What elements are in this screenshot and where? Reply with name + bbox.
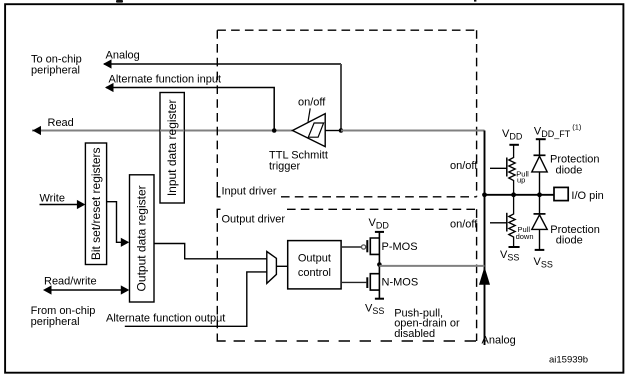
P-MOS gate bubble [362, 245, 366, 249]
svg-text:Input driver: Input driver [222, 185, 277, 197]
dashed box: Input driver [217, 30, 476, 197]
I/O rail [485, 194, 555, 196]
mux: output selector [267, 252, 277, 284]
svg-text:Analog: Analog [482, 334, 516, 346]
svg-text:P-MOS: P-MOS [382, 241, 418, 253]
arrowhead: write (right, into bit set/reset) [77, 200, 86, 209]
wire: analog tap vertical [340, 64, 342, 131]
svg-text:To on-chip: To on-chip [31, 54, 82, 66]
svg-text:Alternate function output: Alternate function output [106, 313, 225, 325]
svg-text:on/off: on/off [450, 219, 478, 231]
wire: schmitt on/off control [308, 108, 310, 121]
register: Input data register [160, 93, 184, 204]
wire: output control to N-MOS gate [342, 281, 366, 283]
svg-text:From on-chip: From on-chip [31, 305, 96, 317]
resistor: pull-down [509, 195, 515, 247]
wire: alternate function output [125, 272, 267, 326]
clipped figure title descender (g) [116, 0, 123, 3]
arrowhead: Read (left) [33, 126, 42, 135]
svg-text:diode: diode [556, 234, 583, 246]
wire: schmitt input from I/O rail (gray) [341, 130, 485, 132]
svg-text:peripheral: peripheral [31, 316, 80, 328]
svg-text:up: up [517, 176, 525, 185]
svg-text:Output: Output [298, 253, 331, 265]
wire: Alternate function input [106, 88, 274, 131]
arrowhead: read/write right [121, 285, 130, 294]
I/O pin pad [554, 187, 568, 200]
svg-text:Alternate function input: Alternate function input [109, 74, 222, 86]
svg-text:diode: diode [556, 165, 583, 177]
resistor: pull-up [509, 145, 515, 195]
power: VDD (P-MOS) [375, 231, 384, 233]
svg-text:peripheral: peripheral [31, 65, 80, 77]
block: Output control [288, 241, 341, 289]
wire: write [40, 204, 80, 206]
wire: read/write (double arrow) [48, 289, 124, 291]
svg-text:Read/write: Read/write [44, 275, 97, 287]
svg-text:on/off: on/off [450, 160, 478, 172]
wire: Analog input path [104, 63, 341, 65]
wire: output control to P-MOS gate [342, 246, 362, 248]
svg-text:down: down [516, 232, 534, 241]
hysteresis symbol [308, 123, 323, 137]
op-amp: TTL Schmitt trigger [293, 114, 326, 147]
clipped figure title descender (p) [474, 0, 476, 2]
arrowhead: Alternate function input (left) [105, 83, 114, 92]
svg-text:Write: Write [40, 192, 65, 204]
arrowhead: Analog (left) [103, 59, 112, 68]
node: push-pull output junction [377, 262, 382, 267]
register: Bit set/reset registers [85, 143, 106, 265]
label: From on-chip peripheral [31, 305, 96, 328]
svg-text:on/off: on/off [298, 96, 326, 108]
svg-text:control: control [298, 267, 331, 279]
node: rail-left junction [482, 192, 487, 197]
svg-text:Output driver: Output driver [222, 213, 286, 225]
label: To on-chip peripheral [31, 54, 82, 77]
node: analog tap junction [339, 128, 344, 133]
wire: right vertical to rail and analog [484, 131, 486, 346]
wire: mux to output control [276, 265, 288, 267]
svg-text:Input data register: Input data register [165, 99, 179, 196]
arrowhead: read/write left [43, 285, 52, 294]
switch: pull-down on/off [506, 213, 508, 232]
node: pull junction [511, 192, 516, 197]
svg-text:Bit set/reset registers: Bit set/reset registers [89, 147, 103, 260]
node: read / AFI junction [272, 128, 277, 133]
label: Protection diode (bottom) [550, 224, 600, 246]
dashed box: Output driver [217, 209, 476, 341]
label: Protection diode (top) [550, 153, 600, 176]
node: diode junction [537, 192, 542, 197]
wire: Read line (gray) [32, 130, 293, 132]
label: Pull down [516, 225, 534, 241]
svg-text:disabled: disabled [394, 328, 435, 340]
wire: push-pull output (gray) [379, 265, 484, 267]
svg-text:Analog: Analog [106, 50, 140, 62]
arrowhead: into output data register [121, 238, 130, 247]
register: Output data register [130, 175, 155, 302]
wire: schmitt input segment [325, 130, 341, 132]
svg-text:Output data register: Output data register [135, 185, 149, 291]
svg-text:TTL Schmitt: TTL Schmitt [269, 149, 328, 161]
svg-text:I/O pin: I/O pin [571, 190, 603, 202]
protection diode (top) [532, 139, 547, 195]
label: TTL Schmitt trigger [269, 149, 328, 172]
svg-text:Protection: Protection [550, 153, 600, 165]
switch: pull-up on/off [506, 158, 508, 177]
label: Pull up [516, 169, 529, 184]
arrowhead: analog up arrow [479, 267, 490, 285]
power: VSS (N-MOS) [375, 298, 384, 300]
svg-text:Read: Read [48, 117, 74, 129]
wire: bit set/reset to output data register [107, 202, 123, 243]
transistor N-MOS [367, 265, 379, 299]
svg-text:ai15939b: ai15939b [549, 355, 588, 366]
svg-text:N-MOS: N-MOS [382, 276, 419, 288]
power: VSS (pull-down) [509, 246, 520, 248]
label: Push-pull, open-drain or disabled [394, 307, 460, 340]
protection diode (bottom) [532, 195, 547, 250]
transistor P-MOS [367, 232, 379, 264]
svg-text:trigger: trigger [269, 161, 301, 173]
wire: output data register to mux [154, 244, 267, 259]
